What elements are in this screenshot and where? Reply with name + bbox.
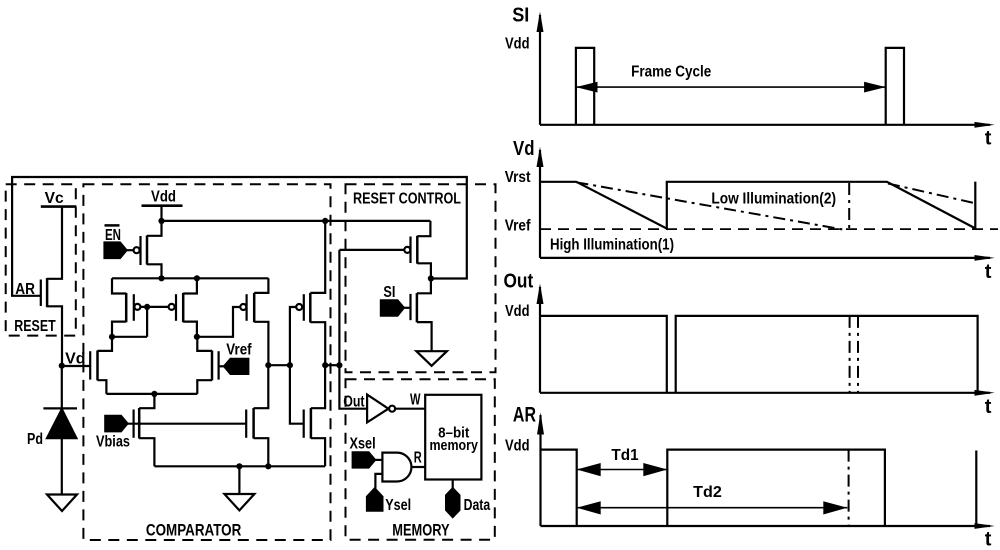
wire MRC-NMOS source to ground [417,322,432,351]
transistor MRC-PMOS channel bar [416,236,419,264]
junction dot rail at EN drain [158,275,164,281]
wire EN-PMOS drain to comparator rail [147,264,162,278]
transistor EN-PMOS gate bubble [134,247,140,253]
transistor MR channel bar [211,351,214,381]
Out dash-dot vertical 1 [849,316,851,393]
junction dot node A left [109,334,115,340]
wire M5 drain up to node B1 [254,365,269,408]
input flag EN [105,243,127,259]
transistor MRC-PMOS gate bar [409,237,411,264]
wire M7 source to ground rail [139,438,154,466]
svg-text:Vdd: Vdd [505,438,530,455]
wire Vdd rail down [160,206,162,221]
bidirectional flag Data [446,488,459,517]
Vdd supply rail bar [142,204,183,207]
transistor M5 gate bar [245,410,247,438]
transistor M4 channel bar [309,293,312,323]
wire EN flag to gate bubble [127,249,134,251]
wire Vref flag to MR gate [219,365,225,367]
inverter U1 triangle [367,395,388,423]
svg-text:Vrst: Vrst [505,169,531,186]
transistor M1 gate bar [133,294,135,321]
Vref dashed reference line [540,228,998,230]
svg-text:AR: AR [513,403,536,426]
junction dot node B1 left [265,362,271,368]
transistor ML channel bar [96,351,99,381]
transistor M1 gate bubble [134,304,140,310]
Vd dash-dot vertical reset low illumination [848,183,850,230]
svg-text:Vdd: Vdd [151,189,176,206]
transistor M7 channel bar [138,408,141,439]
transistor M2 gate bubble [169,304,175,310]
transistor M1 source wire [112,278,126,293]
component 8-bit memory box [425,395,481,480]
wire MRC-PMOS drain to AR node [417,263,431,278]
Vd plot y-axis [539,150,541,258]
wire Vd to comparator input gate [62,365,90,367]
frame cycle right arrowhead [864,82,886,93]
comparator internal top rail [112,277,268,279]
SI plot x-axis [540,124,990,126]
wire EN-PMOS source to supply [147,221,162,236]
svg-text:t: t [985,529,992,550]
svg-text:Ysel: Ysel [385,497,411,514]
junction dot on gate wire [144,304,150,310]
wire M3 source to rail [254,278,268,293]
junction dot node B1 right [287,362,293,368]
wire Vc rail down to AR transistor source [47,207,62,279]
COMPARATOR block dashed box [83,184,330,540]
wire MR source to tail [197,380,212,394]
comparator ground rail [154,465,325,467]
input flag SI [381,300,404,315]
wire inverter to memory W input [396,408,426,410]
transistor M2 channel bar [182,293,185,322]
transistor AR gate bar [40,280,42,307]
transistor M3 channel bar [253,293,256,322]
Td1 arrow line [577,469,668,471]
junction dot supply at EN source [158,218,164,224]
svg-text:Frame Cycle: Frame Cycle [631,63,711,80]
junction dot supply at M4 source [322,218,328,224]
svg-text:MEMORY: MEMORY [392,521,450,540]
transistor M3 gate bar [246,294,248,321]
Vd plot x-axis arrowhead [975,255,995,261]
Vd dash-dot ramp low illumination cycle 2 [888,184,974,204]
wire cross-coupling gates M1-M2 [140,306,168,308]
Td2 arrow line [577,507,848,509]
transistor M6 channel bar [310,408,313,439]
wire M4 source up to supply line [310,221,325,293]
svg-text:Vdd: Vdd [505,303,530,320]
wire gate junction down to node A [146,307,148,337]
svg-text:Low Illumination(2): Low Illumination(2) [711,190,836,207]
frame cycle arrow line [576,86,886,88]
transistor M4 gate bar [303,294,305,321]
MEMORY block dashed box [346,379,495,540]
junction dot node B2 left [322,362,328,368]
junction dot node B2 right [336,362,342,368]
svg-text:W: W [410,392,421,409]
svg-text:RESET CONTROL: RESET CONTROL [353,190,461,207]
svg-text:t: t [985,261,992,283]
Vc supply rail bar [41,205,77,208]
svg-text:Vref: Vref [505,217,531,234]
wire M3 drain to node B1 [254,322,268,365]
svg-text:Vc: Vc [45,190,64,207]
SI pulse 1 [576,48,594,125]
svg-text:Out: Out [343,394,365,411]
wire MR drain up to node B [197,337,212,351]
transistor AR channel bar [46,278,49,307]
Vd solid waveform high illumination [540,182,975,229]
inverter U1 output bubble [389,406,395,412]
svg-text:R: R [414,450,422,467]
transistor M4 gate bubble [296,304,302,310]
junction dot AR node [428,275,434,281]
transistor M3 gate bubble [240,304,246,310]
Out plot x-axis [540,392,990,394]
frame cycle left arrowhead [576,82,598,93]
transistor EN-PMOS channel bar [146,235,149,264]
junction dot ground stem [236,463,242,469]
AR plot x-axis [541,525,991,527]
wire node B1 [268,364,290,366]
transistor M6 gate bar [303,410,305,438]
transistor MRC-PMOS gate bubble [404,247,410,253]
wire M6 drain up to node B2 [311,365,325,408]
transistor M2 gate bar [175,294,177,321]
wire ground stem [238,466,240,494]
input flag Vbias [105,416,127,432]
Out waveform pulse 2 [676,316,978,393]
wire AR drain down to Vd node [47,306,62,365]
wire M2 source to rail [183,278,197,293]
svg-text:SI: SI [512,5,529,27]
wire photodiode anode to ground [61,438,63,494]
transistor M7 (Vbias) gate bar [133,410,135,438]
svg-text:Vbias: Vbias [96,434,130,451]
Out dash-dot vertical 2 [857,316,859,393]
junction dot tail [151,391,157,397]
wire AR node down to MRC-NMOS drain [417,279,431,294]
svg-text:t: t [985,128,992,150]
junction dot node B left [194,334,200,340]
svg-text:Vdd: Vdd [505,35,530,52]
svg-text:EN: EN [105,227,121,244]
Td2 left arrowhead [577,501,601,514]
svg-text:Vref: Vref [226,342,252,359]
wire switched supply line to reset control [162,220,431,222]
wire M6 source to ground rail [311,438,325,466]
transistor M1 drain wire to node A [112,322,126,337]
AR next pulse rising edge [975,451,977,527]
wire AND output to memory R input [412,466,426,468]
Td2 right arrowhead [823,501,847,514]
wire node B2 [325,364,339,366]
ground symbol comparator [224,494,254,510]
transistor MR gate bar [218,351,220,379]
wire M6 gate from node B1 [290,365,304,424]
wire reset PMOS gate [339,249,404,251]
Out plot y-axis arrowhead [537,284,544,305]
wire ML source to tail [98,380,107,394]
wire memory to Data flag [452,480,454,489]
wire M5 source to ground rail [254,438,269,466]
wire Vd down to photodiode [61,366,63,409]
Out plot x-axis arrowhead [975,390,995,396]
SI plot y-axis [539,15,541,125]
wire Xsel flag to AND gate [375,459,382,461]
svg-text:COMPARATOR: COMPARATOR [146,521,241,540]
svg-text:Xsel: Xsel [350,435,376,452]
junction dot rail at M2 source [194,275,200,281]
wire AR gate feedback to reset control output [12,177,467,296]
junction dot M5 source [265,463,271,469]
svg-text:AR: AR [15,281,35,298]
svg-text:Out: Out [504,271,534,293]
SI pulse 2 [886,48,904,125]
node Vd junction dot [59,363,65,369]
transistor ML input gate bar [89,351,91,379]
wire Vbias distribution to M5 gate [127,423,246,425]
wire M4 drain to node B2 [310,322,325,365]
wire node A [112,336,147,338]
wire M7 drain up to tail [139,394,154,408]
transistor MRC-NMOS channel bar [416,293,419,322]
AND gate U2 [382,453,411,482]
svg-text:RESET: RESET [14,318,56,335]
transistor M1 channel bar [125,293,128,322]
Td1 left arrowhead [577,463,601,476]
input flag Xsel [353,452,375,467]
AR plot x-axis arrowhead [975,523,995,529]
svg-text:Td1: Td1 [611,447,638,464]
transistor M5 channel bar [252,408,255,439]
ground symbol reset control [416,351,447,366]
AR plot y-axis [539,415,541,526]
Out plot y-axis [539,287,541,393]
photodiode Pd cathode bar [43,407,77,409]
svg-text:High Illumination(1): High Illumination(1) [550,237,674,254]
svg-text:Td2: Td2 [693,484,722,501]
svg-text:Pd: Pd [27,431,43,448]
Vd plot y-axis arrowhead [537,147,544,167]
AR dash-dot vertical [848,450,850,526]
ground symbol below photodiode [47,495,77,512]
transistor MRC-NMOS gate bar [409,294,411,320]
wire tail rail [106,393,197,395]
overline of EN [105,224,120,227]
wire SI flag to gate [404,307,411,309]
SI plot y-axis arrowhead [537,12,544,33]
wire ML drain up to node A [98,337,113,351]
svg-text:memory: memory [430,437,479,454]
wire MRC-PMOS source up to supply line [417,221,430,236]
SI plot x-axis arrowhead [975,122,995,128]
wire comparator output down to Out / reset gate [339,250,367,409]
svg-text:Vd: Vd [513,138,535,160]
input flag Vref [224,359,248,374]
RESET CONTROL block dashed box [346,184,496,372]
wire Ysel to AND second input [375,474,382,489]
wire node B to M3 gate [197,307,240,337]
AR waveform pulse 2 [667,450,885,526]
input flag Ysel [367,489,382,511]
wire M4 gate to node B1 [290,307,296,365]
AR plot y-axis arrowhead [537,412,544,434]
AR waveform pulse 1 [541,450,577,526]
Vd plot x-axis [540,257,990,259]
svg-text:t: t [985,396,992,418]
wire M2 drain to node B [183,322,197,337]
Out waveform pulse 1 [540,316,667,393]
photodiode Pd filled triangle [47,409,76,438]
transistor EN-PMOS gate bar [139,236,141,265]
Vd dash-dot ramp low illumination cycle 1 [576,182,844,229]
svg-text:SI: SI [383,284,395,301]
svg-text:Data: Data [464,497,491,514]
RESET block dashed box [6,184,76,335]
Td1 right arrowhead [643,463,667,476]
